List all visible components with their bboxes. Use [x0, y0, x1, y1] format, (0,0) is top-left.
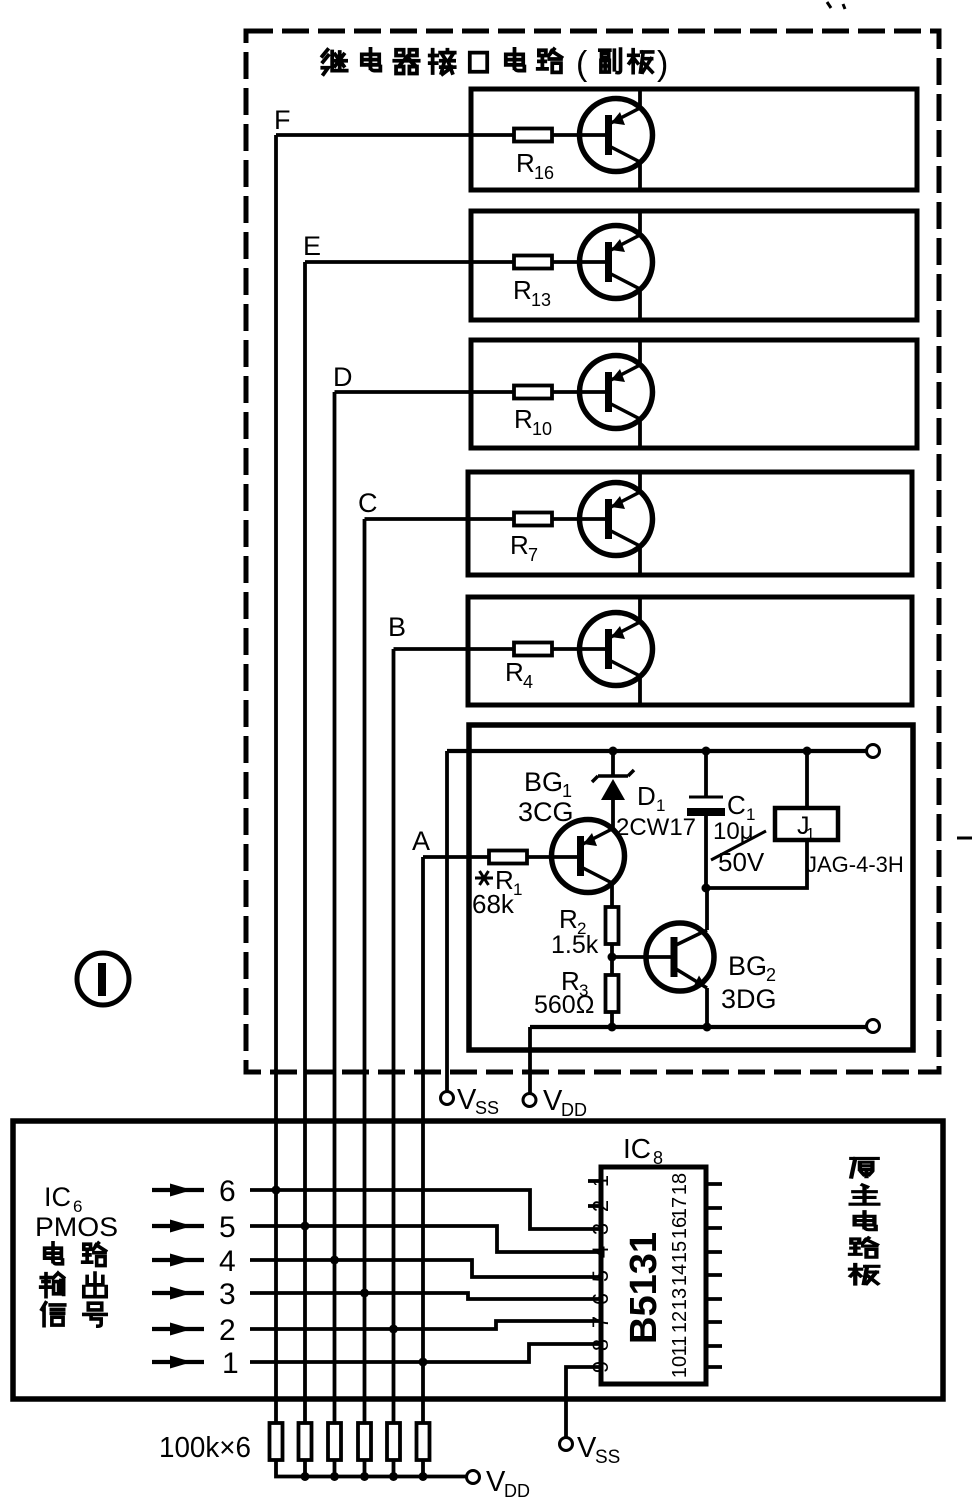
svg-text:C: C	[727, 790, 746, 820]
arrow 3	[152, 1291, 204, 1295]
svg-text:2CW17: 2CW17	[616, 814, 696, 841]
resistor R4	[514, 643, 552, 656]
svg-text:IC: IC	[623, 1133, 651, 1164]
svg-text:R: R	[516, 148, 535, 178]
node C1 bottom	[702, 884, 711, 893]
wire R2-R3	[610, 944, 614, 975]
svg-text:5: 5	[588, 1270, 613, 1282]
svg-text:8: 8	[653, 1148, 663, 1168]
node row6/F	[272, 1186, 281, 1195]
wire BG2 collector	[705, 888, 709, 930]
svg-text:R: R	[513, 275, 532, 305]
transistor BG2	[646, 923, 714, 991]
svg-text:V: V	[543, 1085, 563, 1117]
svg-text:68k: 68k	[472, 889, 515, 919]
svg-text:1: 1	[513, 880, 522, 899]
wire E to R13	[305, 260, 606, 264]
arrow 6	[152, 1188, 204, 1192]
svg-text:JAG-4-3H: JAG-4-3H	[806, 852, 904, 877]
terminal VSS bottom	[560, 1438, 573, 1451]
transistor BG1	[552, 820, 625, 893]
arrow 2	[152, 1327, 204, 1331]
svg-text:D: D	[333, 362, 353, 392]
wire B to R4	[394, 647, 607, 651]
wire row3 to pin6	[250, 1293, 601, 1299]
node row1/A	[419, 1358, 428, 1367]
svg-text:13: 13	[531, 290, 551, 310]
svg-text:4: 4	[219, 1245, 236, 1278]
resistor E	[299, 1423, 312, 1460]
svg-text:4: 4	[588, 1246, 613, 1258]
svg-text:50V: 50V	[718, 847, 765, 877]
svg-text:14: 14	[669, 1264, 691, 1286]
right pin stubs	[706, 1184, 722, 1367]
transistor block5	[580, 613, 653, 686]
wire VSS drop	[445, 751, 449, 1091]
svg-text:): )	[657, 45, 668, 83]
svg-text:1: 1	[656, 796, 665, 815]
wire BG1 collector to R2	[610, 883, 614, 907]
resistor C	[358, 1423, 371, 1460]
svg-text:IC: IC	[44, 1182, 71, 1212]
svg-text:13: 13	[669, 1288, 691, 1310]
resistor R7	[514, 513, 552, 526]
svg-text:18: 18	[669, 1173, 691, 1195]
svg-text:10: 10	[669, 1356, 691, 1378]
transistor block3	[580, 356, 653, 429]
transistor block4	[580, 483, 653, 556]
svg-text:F: F	[274, 105, 291, 135]
svg-text:2: 2	[766, 965, 776, 985]
svg-text:V: V	[486, 1466, 506, 1498]
node J1 top	[803, 747, 812, 756]
wire pin9 to VSS	[566, 1367, 601, 1437]
svg-text:10: 10	[532, 419, 552, 439]
node BG2 emitter	[703, 1023, 712, 1032]
svg-text:B: B	[388, 612, 406, 642]
relay J1	[805, 751, 809, 808]
svg-text:A: A	[412, 826, 430, 856]
resistor R13	[514, 256, 552, 269]
wire row2 to pin7	[250, 1321, 601, 1329]
svg-text:1: 1	[222, 1347, 239, 1380]
zener D1	[611, 751, 615, 829]
svg-text:6: 6	[219, 1175, 236, 1208]
wire BG2 emitter	[705, 988, 709, 1027]
wire D vertical	[333, 392, 337, 1423]
capacitor C1	[704, 751, 708, 797]
stray print marks top	[827, 2, 845, 9]
right pin numbers	[669, 1173, 691, 1378]
wire C vertical	[363, 519, 367, 1423]
node C1 top	[702, 747, 711, 756]
node row4/D	[330, 1256, 339, 1265]
relay driver block 4	[468, 472, 912, 575]
bottom supply rail	[530, 1025, 867, 1029]
svg-text:PMOS: PMOS	[35, 1212, 118, 1242]
title 继电器接口电路(副板)	[322, 45, 668, 83]
top supply rail	[447, 749, 867, 753]
svg-text:3DG: 3DG	[721, 984, 777, 1014]
resistor R1	[489, 851, 527, 864]
resistor R10	[514, 386, 552, 399]
svg-text:E: E	[303, 231, 321, 261]
svg-text:BG: BG	[524, 767, 563, 797]
pin stub 2	[588, 1204, 601, 1208]
svg-text:15: 15	[669, 1241, 691, 1263]
wire row1 to pin8	[250, 1344, 601, 1362]
svg-text:1.5k: 1.5k	[551, 931, 599, 959]
node D1 top	[609, 747, 618, 756]
svg-text:B5131: B5131	[623, 1232, 665, 1344]
detailed relay driver box	[469, 725, 913, 1050]
resistor R2	[606, 907, 619, 944]
svg-text:R: R	[510, 530, 529, 560]
svg-text:V: V	[457, 1084, 477, 1116]
wire F vertical	[274, 135, 278, 1423]
svg-text:V: V	[577, 1432, 597, 1464]
relay driver block 1	[471, 89, 917, 190]
pin stub 1	[588, 1179, 601, 1183]
resistor A	[417, 1423, 430, 1460]
svg-text:17: 17	[669, 1197, 691, 1219]
wire C to R7	[365, 517, 607, 521]
svg-text:DD: DD	[561, 1100, 587, 1120]
wire row6 to pin3	[250, 1190, 601, 1229]
svg-text:C: C	[358, 488, 378, 518]
figure number 1	[77, 953, 129, 1005]
svg-text:DD: DD	[504, 1481, 530, 1501]
wire row4 to pin5	[250, 1260, 601, 1277]
svg-text:6: 6	[588, 1293, 613, 1305]
arrow 1	[152, 1360, 204, 1364]
resistor F	[270, 1423, 283, 1460]
svg-text:3CG: 3CG	[518, 797, 574, 827]
wire D to R10	[335, 390, 607, 394]
wire row5 to pin4	[250, 1226, 601, 1252]
resistor B	[387, 1423, 400, 1460]
VDD bus	[276, 1460, 467, 1477]
svg-text:12: 12	[669, 1311, 691, 1333]
wire F to R16	[276, 133, 606, 137]
arrow 4	[152, 1258, 204, 1262]
wire A vertical lower	[421, 1362, 425, 1423]
svg-text:16: 16	[669, 1217, 691, 1239]
main board box	[13, 1121, 943, 1399]
node R3 bottom	[608, 1023, 617, 1032]
stray print mark right edge	[957, 837, 972, 840]
wire R3 bottom	[610, 1012, 614, 1027]
transistor block1	[580, 99, 653, 172]
resistor D	[328, 1423, 341, 1460]
svg-text:4: 4	[523, 672, 533, 692]
terminal VDD bottom	[467, 1471, 480, 1484]
node row2/B	[389, 1325, 398, 1334]
svg-text:R: R	[514, 404, 533, 434]
svg-text:16: 16	[534, 163, 554, 183]
svg-text:2: 2	[219, 1314, 236, 1347]
svg-text:SS: SS	[475, 1098, 499, 1118]
svg-text:3: 3	[219, 1278, 236, 1311]
svg-text:7: 7	[588, 1316, 613, 1328]
left pin numbers	[588, 1175, 613, 1373]
wire E vertical	[303, 262, 307, 1423]
wire base BG2	[612, 955, 674, 959]
outer dashed board: relay interface circuit (sub-board)	[246, 31, 939, 1072]
wire A horizontal	[423, 855, 489, 859]
svg-text:560Ω: 560Ω	[534, 991, 594, 1019]
terminal bottom right	[867, 1020, 880, 1033]
svg-text:(: (	[576, 45, 588, 83]
svg-text:R: R	[505, 657, 524, 687]
svg-text:R: R	[559, 904, 578, 934]
transistor block2	[580, 226, 653, 299]
resistor R16	[514, 129, 552, 142]
terminal top right	[867, 745, 880, 758]
svg-text:2: 2	[588, 1200, 613, 1212]
wire B vertical	[392, 649, 396, 1423]
svg-text:8: 8	[588, 1339, 613, 1351]
svg-text:100k×6: 100k×6	[159, 1432, 251, 1464]
relay driver block 3	[471, 340, 917, 448]
node row3/C	[360, 1289, 369, 1298]
IC8 chip B5131	[601, 1167, 706, 1384]
label 原主电路板	[851, 1158, 877, 1177]
relay driver block 2	[471, 211, 917, 320]
terminal VDD	[523, 1094, 536, 1107]
wire VDD drop	[528, 1027, 532, 1093]
svg-text:D: D	[637, 781, 656, 811]
bus junctions	[301, 1472, 310, 1481]
svg-text:1: 1	[588, 1175, 613, 1187]
svg-text:SS: SS	[595, 1447, 620, 1468]
svg-text:11: 11	[669, 1336, 691, 1357]
svg-text:3: 3	[588, 1223, 613, 1235]
node R2/R3	[608, 953, 617, 962]
svg-text:BG: BG	[728, 951, 767, 981]
svg-text:7: 7	[528, 545, 538, 565]
node row5/E	[301, 1222, 310, 1231]
resistor R3	[606, 975, 619, 1012]
svg-text:5: 5	[219, 1211, 236, 1244]
relay driver block 5	[468, 597, 912, 705]
wire A vertical	[421, 857, 425, 1362]
terminal VSS	[441, 1092, 454, 1105]
arrow 5	[152, 1224, 204, 1228]
